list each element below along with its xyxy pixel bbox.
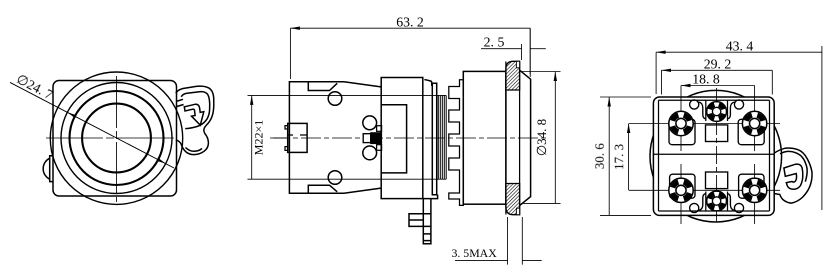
dimension 29.2	[662, 70, 773, 94]
latch base ticks	[176, 99, 183, 106]
circle 3 (button rim)	[70, 91, 164, 185]
rear housing tall rect	[381, 78, 423, 199]
corner screw column centerlines	[681, 86, 755, 225]
dimension 3.5MAX	[455, 217, 542, 265]
front square body	[53, 81, 177, 197]
plunger white square	[363, 134, 371, 143]
svg-text:43. 4: 43. 4	[726, 38, 754, 53]
bezel circle (rear)	[650, 90, 782, 222]
dimension 2.5	[481, 28, 546, 74]
ear BL	[690, 194, 706, 213]
ear TL	[690, 100, 706, 119]
small circle upper	[363, 116, 377, 130]
dimension 63.2	[290, 28, 530, 79]
screw terminal TL	[669, 111, 693, 135]
latch outer	[774, 148, 812, 203]
horizontal centerline (side view)	[270, 137, 548, 139]
latch lever (front view) outer outline	[176, 86, 214, 154]
vertical centerline	[116, 76, 118, 202]
pad BL	[670, 174, 695, 198]
svg-text:17. 3: 17. 3	[611, 144, 626, 170]
rear square inner lines	[659, 100, 770, 211]
dimension 43.4	[656, 46, 822, 210]
arrows on circle r55.5 for d24.7	[67, 112, 76, 118]
pad TR	[738, 119, 764, 144]
svg-text:3. 5MAX: 3. 5MAX	[452, 246, 498, 260]
dimension 17.3	[628, 124, 630, 191]
diameter leader line d24.7	[10, 82, 174, 168]
anti-rotation washer column	[432, 83, 436, 194]
plunger black block	[371, 133, 382, 144]
screw terminal BR	[742, 178, 766, 202]
ear TR	[727, 100, 743, 119]
circle outer flange	[50, 72, 182, 204]
top small tab on collar	[425, 80, 432, 86]
screw row centerline upper (17.3 ext)	[629, 123, 780, 125]
top notch	[308, 82, 337, 91]
left side bump	[43, 156, 53, 182]
dimension 18.8	[681, 85, 755, 87]
circle 2	[61, 83, 172, 194]
top screw circle	[328, 92, 342, 106]
center window upper	[706, 125, 728, 142]
thread lines M22	[438, 95, 446, 179]
gasket notch top	[516, 61, 519, 68]
svg-text:29. 2: 29. 2	[704, 57, 732, 72]
gasket notch bottom	[516, 208, 519, 215]
pad TL	[669, 119, 695, 144]
vertical centerline rear	[716, 88, 718, 225]
rear square body	[653, 97, 774, 215]
latch rotate arrow (hollow)	[184, 104, 204, 125]
stem side box	[409, 214, 423, 227]
bottom screw circle	[328, 171, 342, 185]
svg-text:63. 2: 63. 2	[396, 15, 424, 30]
gasket edge lines	[506, 62, 520, 215]
screw terminal top middle	[707, 102, 727, 122]
latch inner profile	[780, 151, 807, 181]
collar bottom ledge	[423, 195, 438, 199]
bezel barrel	[463, 71, 506, 204]
left terminal clamp	[288, 123, 307, 152]
terminal pads	[669, 119, 764, 198]
tabs on rear housing edge	[377, 126, 382, 132]
front flange circles	[50, 72, 182, 204]
small circle lower	[363, 146, 377, 160]
dimension d34.8	[521, 72, 561, 204]
svg-text:M22×1: M22×1	[252, 120, 266, 155]
housing split line	[653, 153, 774, 155]
pad BR	[739, 174, 764, 198]
screw terminal BL	[669, 178, 693, 202]
contact block outline	[289, 82, 381, 193]
rear latch lever	[774, 148, 812, 203]
dimension 30.6	[600, 97, 651, 215]
M22 thread extension lines	[248, 95, 447, 179]
svg-text:2. 5: 2. 5	[484, 35, 505, 50]
bottom notch	[308, 185, 337, 193]
screw row centerline lower (17.3 ext)	[629, 189, 780, 191]
ear BR	[727, 194, 743, 213]
mounting stem below	[423, 199, 431, 244]
middle screw channel lower	[706, 192, 728, 212]
svg-text:18. 8: 18. 8	[692, 72, 720, 87]
screw terminal bottom middle	[707, 191, 727, 211]
latch inner slot	[784, 164, 803, 189]
middle screw channel upper	[706, 100, 728, 121]
rear housing inner rect	[381, 105, 406, 173]
button cap profile	[520, 70, 531, 205]
screw terminal TR	[742, 111, 766, 135]
bezel rib column	[449, 80, 464, 206]
center window lower	[706, 172, 728, 189]
svg-text:30. 6: 30. 6	[592, 143, 607, 170]
front centerlines	[46, 76, 175, 202]
circle 4 (button face)	[82, 104, 151, 173]
latch lever inner outline	[181, 92, 209, 129]
dimension M22x1	[251, 95, 253, 179]
svg-text:∅34. 8: ∅34. 8	[534, 119, 549, 156]
horizontal centerline	[46, 137, 175, 139]
latch lower lobe inner arc	[186, 148, 203, 152]
gasket hatched bottom	[506, 184, 520, 215]
gasket hatched top	[506, 61, 520, 90]
